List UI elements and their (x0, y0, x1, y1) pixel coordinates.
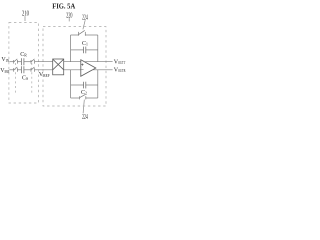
switch 224 bottom (80, 95, 86, 100)
capacitor CR row1 (22, 58, 24, 65)
ganged switch link line B (31, 63, 33, 94)
wire row2 left (9, 69, 13, 71)
svg-text:VREF: VREF (39, 71, 50, 78)
leader for 224 bottom (83, 100, 84, 114)
switch S2b row2 (31, 67, 35, 72)
switch S1b row1 (31, 59, 35, 64)
dashed box 210 (9, 23, 39, 104)
wire row1 left (9, 61, 13, 63)
feedback cap row wire right (bottom) (86, 84, 98, 86)
feedback left vertical (bottom) (70, 70, 72, 98)
feedback right vertical (top) (97, 35, 99, 62)
feedback cap row wire right (top) (86, 49, 98, 51)
leader for 210 (24, 16, 26, 21)
svg-text:220: 220 (66, 10, 72, 19)
wire row1 mid (18, 61, 22, 63)
leader for 224 top (83, 20, 85, 29)
feedback left vertical (top) (70, 35, 72, 62)
op-amp U1 (81, 60, 96, 77)
wire chopper to amp (bottom) (64, 69, 81, 71)
switch S2a row2 (14, 67, 18, 72)
svg-text:CR: CR (20, 52, 27, 58)
dashed box 220 (43, 27, 106, 106)
chopper switch box U2 (53, 59, 64, 75)
feedback switch row (top) (71, 34, 79, 36)
svg-text:VOUTB: VOUTB (114, 67, 126, 73)
feedback cap row wire left (top) (71, 49, 84, 51)
feedback switch row (bottom) (71, 97, 80, 99)
wire row1 to cross box (35, 61, 53, 63)
svg-text:C1: C1 (82, 41, 88, 47)
capacitor C1 (top feedback) (84, 47, 86, 54)
leader for 220 (68, 18, 70, 21)
wire chopper to amp (top) (64, 61, 81, 63)
wire row1 after cap (24, 61, 31, 63)
capacitor C2 (bottom feedback) (84, 82, 86, 89)
svg-text:VOUTT: VOUTT (114, 59, 126, 65)
wire switch to right vertical (bottom) (86, 97, 98, 99)
wire switch to right vertical (top) (86, 34, 98, 36)
feedback right vertical (bottom) (97, 70, 99, 98)
svg-text:CS: CS (22, 75, 28, 81)
svg-text:VIN: VIN (1, 57, 9, 63)
wire row2 to cross box (35, 69, 53, 71)
capacitor CS row2 (22, 66, 24, 73)
output wire bottom (92, 69, 112, 71)
svg-text:FIG. 5A: FIG. 5A (52, 2, 76, 11)
svg-text:−: − (81, 68, 84, 74)
svg-text:VRMP: VRMP (0, 68, 9, 74)
svg-text:210: 210 (22, 9, 29, 18)
switch S1a row1 (14, 59, 18, 64)
wire row2 after cap (24, 69, 31, 71)
feedback cap row wire left (bottom) (71, 84, 84, 86)
ganged switch link line A (15, 63, 17, 94)
output wire top (84, 61, 112, 63)
wire row2 mid (18, 69, 22, 71)
switch 224 top (78, 30, 85, 35)
